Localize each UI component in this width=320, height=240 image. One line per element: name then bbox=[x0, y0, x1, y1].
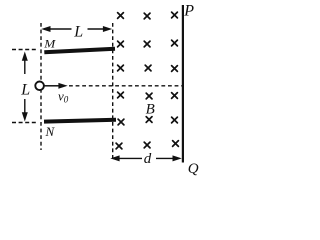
magnetic field crosses, row 4 bbox=[118, 92, 178, 99]
rail M (top thick conductor) bbox=[44, 49, 115, 53]
svg-text:P: P bbox=[183, 3, 194, 20]
dashed entry boundary line (left vertical) bbox=[40, 23, 42, 150]
svg-text:B: B bbox=[146, 101, 155, 117]
L dimension arrow (top, double-headed) bbox=[41, 26, 112, 32]
bottom-left dashed level line bbox=[12, 122, 36, 124]
ring (charged particle / small loop) on entry line bbox=[35, 82, 44, 91]
rail N (bottom thick conductor) bbox=[44, 120, 116, 122]
dashed field boundary line (second vertical) bbox=[112, 23, 114, 161]
d dimension arrow (bottom, double-headed) bbox=[110, 155, 182, 161]
svg-text:L: L bbox=[73, 24, 83, 41]
magnetic field crosses, row 3 bbox=[118, 65, 178, 71]
magnetic field crosses, row 6 bbox=[116, 141, 178, 149]
magnetic field crosses, row 5 bbox=[118, 117, 177, 125]
svg-text:Q: Q bbox=[188, 161, 199, 176]
top-left dashed level line bbox=[12, 49, 38, 51]
L dimension arrow (left, double-headed vertical) bbox=[22, 52, 28, 122]
magnetic field crosses, row 2 bbox=[118, 40, 178, 47]
svg-text:M: M bbox=[43, 37, 56, 51]
mid dashed trajectory line bbox=[69, 85, 182, 87]
svg-text:N: N bbox=[45, 124, 56, 139]
plate line P-Q (right solid vertical) bbox=[182, 5, 184, 163]
velocity arrow v0 bbox=[44, 83, 68, 89]
svg-text:d: d bbox=[144, 151, 152, 167]
magnetic field crosses (B into page), row 1 bbox=[118, 12, 178, 19]
svg-text:L: L bbox=[20, 81, 30, 98]
